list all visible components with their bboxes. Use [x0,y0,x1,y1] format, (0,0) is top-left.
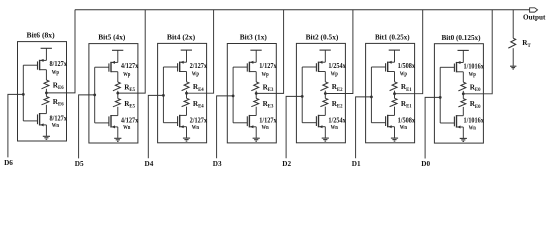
wire PMOS drain to resistor [45,70,47,80]
svg-text:1/1016x: 1/1016x [464,62,485,70]
ground symbol bit 0 [460,138,467,141]
transistor NMOS Wn bit 1 [371,115,394,128]
svg-text:Bit6 (8x): Bit6 (8x) [27,31,55,40]
wire gate rail bit 0 [439,67,441,123]
power supply bar bit 1 [389,50,400,62]
svg-text:Output: Output [523,13,546,22]
label RE4 lower [193,100,204,110]
label RE0 upper [470,84,481,94]
label value 1/508x Wp bit 1 [398,62,416,78]
wire bus to termination resistor [512,10,514,39]
resistor RE4 lower [182,93,189,115]
svg-text:RE2: RE2 [332,100,343,110]
bit cell box Bit5 [89,44,138,143]
wire data input D1 [356,97,372,158]
power supply bar bit 4 [181,50,192,62]
node gate/data junction bit 3 [232,95,235,98]
svg-text:RE0: RE0 [470,100,481,110]
svg-text:RE4: RE4 [193,100,204,110]
resistor RT termination [508,38,515,48]
label value 1/1016x Wn bit 0 [464,117,485,132]
label value 1/127x Wn bit 3 [259,117,277,132]
svg-text:Wp: Wp [400,71,408,78]
svg-text:Bit4 (2x): Bit4 (2x) [167,33,196,42]
wire NMOS source to ground [462,127,464,138]
node D0 input label [421,160,430,168]
wire node to output bus [46,10,75,93]
label value 1/1016x Wp bit 0 [464,62,485,78]
wire gate rail bit 4 [162,67,164,123]
svg-text:RE0: RE0 [470,84,481,94]
label title Bit1 weight [375,33,410,42]
label value 4/127x Wn bit 5 [121,117,139,132]
transistor NMOS Wn bit 4 [163,115,186,128]
label RE5 lower [124,100,135,110]
bit cell box Bit6 [18,42,67,141]
svg-text:D6: D6 [4,159,13,167]
wire output bus (top rail) [75,9,530,11]
wire node to output bus [187,10,214,94]
wire gate rail bit 3 [232,67,234,123]
label RE2 lower [332,100,343,110]
svg-text:Bit1 (0.25x): Bit1 (0.25x) [375,33,410,42]
resistor RE1 lower [390,94,397,116]
ground symbol bit 1 [391,138,398,141]
resistor RE0 upper [458,82,465,94]
node gate/data junction bit 6 [22,93,25,96]
resistor RE3 lower [251,93,258,115]
node output tap junction bit 1 [393,92,396,95]
node D4 input label [145,160,154,168]
wire gate rail bit 6 [22,65,24,121]
bit cell box Bit0 [434,44,483,143]
svg-text:Bit5 (4x): Bit5 (4x) [98,33,125,42]
svg-text:Wn: Wn [192,124,200,131]
svg-text:1/508x: 1/508x [398,62,416,70]
label RE1 lower [401,100,412,110]
power supply bar bit 2 [320,50,331,62]
svg-text:D5: D5 [75,160,84,168]
wire PMOS drain to resistor [462,72,464,82]
svg-text:RE6: RE6 [53,81,64,91]
wire gate rail bit 2 [301,67,303,123]
transistor PMOS Wp bit 3 [233,61,256,72]
svg-text:Wp: Wp [262,71,270,78]
wire NMOS source to ground [394,127,396,138]
wire node to output bus [325,10,353,94]
wire gate rail bit 1 [370,67,372,123]
svg-text:2/127x: 2/127x [190,62,208,70]
wire data input D4 [148,95,163,158]
transistor PMOS Wp bit 4 [163,61,186,72]
svg-text:Wn: Wn [400,124,408,131]
bit cell box Bit3 [227,44,276,143]
wire PMOS drain to resistor [394,72,396,82]
transistor NMOS Wn bit 5 [95,115,118,128]
wire node to output bus [118,10,145,93]
label value 4/127x Wp bit 5 [121,62,139,78]
label value 1/508x Wn bit 1 [398,116,416,131]
label title Bit6 weight [27,31,55,40]
label RE2 upper [332,83,343,93]
label value 1/127x Wp bit 3 [259,62,277,78]
svg-text:RE3: RE3 [263,100,274,110]
svg-text:RE6: RE6 [53,98,64,108]
power supply bar bit 5 [112,50,123,62]
svg-text:RE1: RE1 [401,83,412,93]
svg-text:Wn: Wn [123,124,131,131]
label RE6 upper [53,81,64,91]
node output tap junction bit 4 [185,92,188,95]
label title Bit5 weight [98,33,125,42]
svg-text:D4: D4 [145,160,154,168]
node output tap junction bit 3 [255,92,258,95]
power supply bar bit 3 [250,50,261,62]
svg-text:D1: D1 [352,160,361,168]
wire PMOS drain to resistor [186,72,188,82]
svg-text:D2: D2 [282,160,291,168]
wire NMOS source to ground [117,127,119,138]
wire data input D3 [217,96,234,158]
node D6 input label [4,159,13,167]
resistor RE6 upper [42,80,49,93]
wire NMOS source to ground [186,127,188,138]
ground symbol bit 4 [183,138,190,141]
svg-text:RE1: RE1 [401,100,412,110]
svg-text:Wp: Wp [331,71,339,78]
label title Bit4 weight [167,33,196,42]
label value 8/127x Wn bit 6 [50,115,68,130]
transistor PMOS Wp bit 5 [95,61,118,72]
wire PMOS drain to resistor [255,72,257,82]
power supply bar bit 6 [41,48,52,60]
node output tap junction bit 2 [324,92,327,95]
node D3 input label [213,160,222,168]
wire PMOS drain to resistor [117,72,119,82]
wire RT to ground [512,48,514,66]
svg-text:D0: D0 [421,160,430,168]
svg-text:Bit2 (0.5x): Bit2 (0.5x) [306,33,339,42]
ground symbol bit 5 [114,138,121,141]
wire NMOS source to ground [45,125,47,136]
svg-text:Wp: Wp [192,71,200,78]
resistor RE4 upper [182,82,189,93]
svg-text:RE4: RE4 [193,83,204,93]
transistor PMOS Wp bit 6 [23,59,46,70]
node D1 input label [352,160,361,168]
ground symbol bit 6 [43,136,50,139]
wire data input D6 [8,94,23,157]
node gate/data junction bit 2 [301,95,304,98]
wire gate rail bit 5 [94,67,96,123]
resistor RE5 upper [113,82,120,93]
bit cell box Bit4 [158,43,207,142]
label RE1 upper [401,83,412,93]
label value 2/127x Wn bit 4 [190,116,208,131]
label RE0 lower [470,100,481,110]
wire PMOS drain to resistor [324,72,326,82]
node D5 input label [75,160,84,168]
label value 2/127x Wp bit 4 [190,62,208,78]
label title Bit0 weight [441,33,480,42]
wire NMOS source to ground [255,127,257,138]
transistor NMOS Wn bit 3 [233,115,256,128]
svg-text:4/127x: 4/127x [121,62,139,70]
svg-text:RE3: RE3 [263,83,274,93]
svg-text:Wn: Wn [52,122,60,129]
svg-text:Wn: Wn [331,124,339,131]
node gate/data junction bit 5 [93,94,96,97]
node D2 input label [282,160,291,168]
wire node to output bus [395,10,423,94]
resistor RE2 upper [320,82,327,94]
wire NMOS source to ground [324,127,326,138]
svg-text:Wp: Wp [469,71,477,78]
svg-text:8/127x: 8/127x [50,60,68,68]
resistor RE2 lower [320,94,327,116]
svg-text:RE5: RE5 [124,83,135,93]
resistor RE5 lower [113,93,120,116]
svg-text:Wp: Wp [52,69,60,76]
ground symbol bit 2 [322,138,329,141]
node output tap junction bit 5 [116,92,119,95]
resistor RE0 lower [458,94,465,116]
svg-text:RE5: RE5 [124,100,135,110]
label value 1/254x Wp bit 2 [328,62,346,78]
output port pin symbol [530,8,538,12]
label RE3 upper [263,83,274,93]
bit cell box Bit1 [366,43,415,142]
node gate/data junction bit 4 [162,94,165,97]
resistor RE1 upper [390,82,397,94]
transistor PMOS Wp bit 2 [302,61,325,72]
label value 1/254x Wn bit 2 [328,116,346,131]
label title Bit2 weight [306,33,339,42]
label RE3 lower [263,100,274,110]
node output tap junction bit 0 [462,92,465,95]
label title Bit3 weight [240,33,267,42]
svg-text:D3: D3 [213,160,222,168]
svg-text:1/254x: 1/254x [328,62,346,70]
svg-text:1/127x: 1/127x [259,62,277,70]
label value 8/127x Wp bit 6 [50,60,68,76]
transistor NMOS Wn bit 0 [440,115,463,128]
wire data input D2 [286,96,302,158]
resistor RE3 upper [251,82,258,94]
wire data input D5 [79,95,95,158]
transistor PMOS Wp bit 0 [440,61,463,72]
resistor RE6 lower [42,93,49,114]
label RE6 lower [53,98,64,108]
transistor NMOS Wn bit 2 [302,115,325,128]
svg-text:Wp: Wp [123,71,131,78]
wire node to output bus [463,10,492,94]
ground symbol termination [510,66,516,69]
wire data input D0 [425,97,440,158]
power supply bar bit 0 [458,50,469,62]
svg-text:Wn: Wn [469,124,477,131]
ground symbol bit 3 [253,138,260,141]
svg-text:Bit3 (1x): Bit3 (1x) [240,33,267,42]
svg-text:RE2: RE2 [332,83,343,93]
svg-text:Bit0 (0.125x): Bit0 (0.125x) [441,33,480,42]
label RE5 upper [124,83,135,93]
node output tap junction bit 6 [45,92,48,95]
node gate/data junction bit 1 [370,96,373,99]
bit cell box Bit2 [296,43,345,142]
transistor PMOS Wp bit 1 [371,61,394,72]
svg-text:Wn: Wn [262,124,270,131]
label RE4 upper [193,83,204,93]
label RT [522,39,531,49]
node gate/data junction bit 0 [439,96,442,99]
svg-text:RT: RT [522,39,531,49]
wire node to output bus [256,10,283,94]
label Output [523,13,546,22]
transistor NMOS Wn bit 6 [23,113,46,126]
